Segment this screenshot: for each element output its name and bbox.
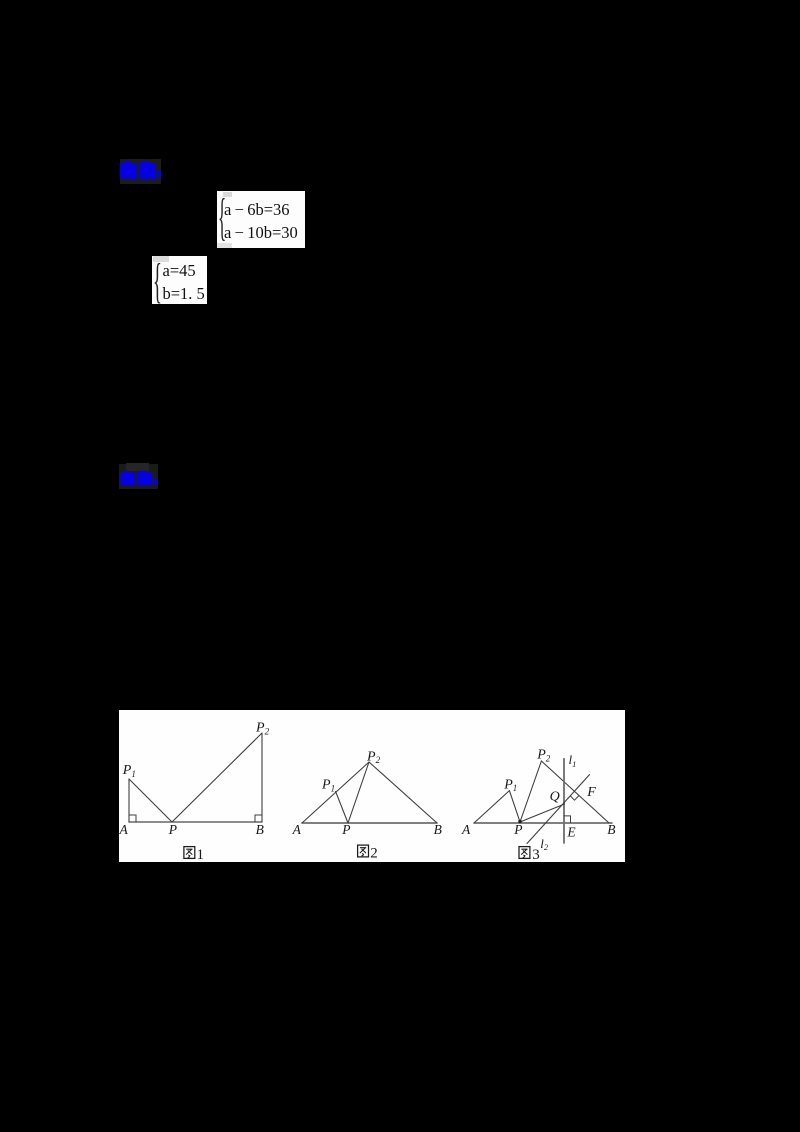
system brace	[153, 252, 162, 309]
svg-text:E: E	[566, 825, 576, 840]
svg-text:P1: P1	[321, 778, 335, 794]
svg-text:B: B	[607, 822, 615, 837]
blue label 2 (blurred Chinese text)	[119, 464, 158, 489]
fig3 line l1 vertical through E	[563, 759, 565, 843]
fig1 segment P-P2	[172, 733, 262, 822]
fig1 vertical A-P1	[128, 779, 130, 822]
svg-text:P: P	[513, 822, 522, 837]
svg-text:F: F	[586, 785, 596, 800]
fig2 segment P1-P	[336, 791, 348, 823]
fig1 vertical P2-B	[261, 733, 263, 822]
svg-text:3: 3	[532, 847, 540, 862]
svg-text:l2: l2	[540, 836, 549, 852]
fig3 segment P1-P	[509, 791, 520, 822]
system brace	[218, 188, 226, 247]
caption 图3	[519, 847, 530, 859]
fig2 baseline A-B	[302, 822, 437, 824]
caption 图1	[184, 847, 195, 859]
equation box 1: system a-6b=36, a-10b=30	[217, 191, 305, 248]
svg-text:B: B	[434, 822, 442, 837]
gray artifact bottom-left	[217, 243, 232, 248]
svg-text:1: 1	[197, 847, 205, 862]
equation a-10b=30	[224, 225, 298, 242]
svg-text:Q: Q	[550, 790, 560, 805]
fig3 baseline A-B	[474, 822, 612, 824]
fig1 segment P1-P	[129, 779, 172, 822]
fig2 segment P2-P	[348, 762, 369, 823]
svg-text:P: P	[341, 822, 350, 837]
svg-text:A: A	[119, 822, 129, 837]
fig1 right angle at A	[129, 815, 136, 822]
fig3 right angle at E	[564, 816, 571, 823]
svg-text:P1: P1	[122, 763, 136, 779]
fig3 side A-P1	[474, 791, 509, 823]
svg-text:P2: P2	[536, 748, 551, 764]
gray artifact top-left	[153, 256, 169, 262]
fig3 line l2 through Q and F	[527, 775, 590, 844]
fig3 side P2-B	[541, 761, 609, 823]
svg-text:P2: P2	[255, 721, 270, 737]
svg-text:P: P	[168, 822, 177, 837]
svg-text:P2: P2	[366, 749, 381, 765]
svg-text:P1: P1	[503, 777, 517, 793]
equation a-6b=36	[224, 202, 290, 219]
equation b=1.5	[163, 286, 205, 303]
svg-text:2: 2	[370, 846, 378, 862]
fig3 right angle at F	[570, 796, 578, 800]
svg-text:B: B	[256, 822, 264, 837]
svg-text:l1: l1	[569, 752, 577, 769]
fig3 segment P-Q	[520, 804, 565, 822]
fig2 side A-P2	[302, 762, 369, 823]
fig1 baseline A-B	[129, 821, 262, 823]
figure panel (white)	[119, 710, 625, 862]
equation a=45	[163, 263, 196, 280]
fig3 point P dot	[518, 820, 521, 823]
equation box 2: a=45, b=1.5	[152, 256, 207, 304]
fig2 side P2-B	[369, 762, 437, 823]
fig3 segment P-P2	[520, 761, 541, 822]
fig1 right angle at B	[255, 815, 262, 822]
blue label 1 (blurred Chinese text)	[120, 159, 161, 184]
caption 图2	[358, 845, 369, 857]
svg-text:A: A	[461, 822, 471, 837]
svg-text:A: A	[292, 822, 302, 837]
gray artifact top-left	[223, 192, 232, 197]
